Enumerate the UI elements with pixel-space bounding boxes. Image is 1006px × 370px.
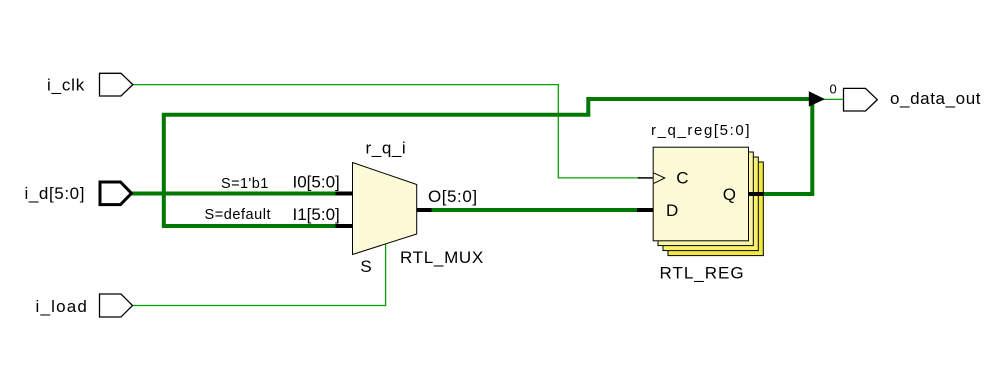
svg-text:i_d[5:0]: i_d[5:0] [25, 184, 86, 203]
svg-text:r_q_i: r_q_i [366, 139, 407, 158]
svg-text:S=default: S=default [205, 207, 272, 223]
svg-text:o_data_out: o_data_out [890, 89, 981, 108]
svg-text:0: 0 [830, 81, 837, 96]
svg-text:O[5:0]: O[5:0] [428, 187, 478, 206]
svg-text:I1[5:0]: I1[5:0] [293, 205, 340, 224]
svg-text:I0[5:0]: I0[5:0] [293, 173, 340, 192]
svg-text:D: D [666, 201, 678, 220]
svg-text:C: C [676, 168, 688, 187]
svg-text:RTL_REG: RTL_REG [660, 264, 745, 283]
svg-text:i_load: i_load [36, 297, 89, 316]
svg-text:S: S [360, 257, 371, 276]
svg-text:i_clk: i_clk [47, 76, 85, 95]
svg-text:Q: Q [723, 185, 736, 204]
svg-text:RTL_MUX: RTL_MUX [400, 248, 484, 267]
svg-text:r_q_reg[5:0]: r_q_reg[5:0] [651, 122, 751, 139]
svg-text:S=1'b1: S=1'b1 [221, 176, 269, 192]
